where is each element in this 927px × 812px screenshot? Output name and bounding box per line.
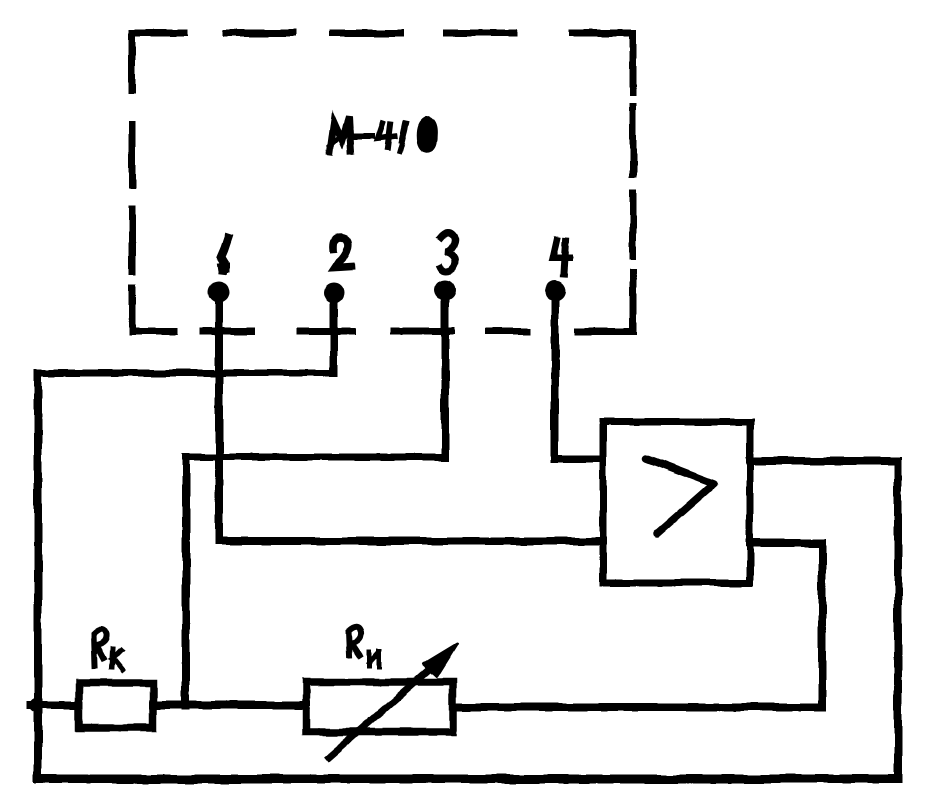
wire right bus vertical — [894, 461, 902, 779]
amplifier U1 gain symbol — [646, 458, 714, 534]
label RK — [94, 629, 123, 670]
dashed enclosure box left dash 3 — [129, 209, 136, 272]
resistor RK body — [79, 683, 153, 728]
dashed enclosure box bottom dash 3 — [300, 328, 352, 335]
wire pin1 vertical down to lower amp input line — [215, 292, 223, 541]
wire node vertical down to resistor line — [182, 457, 190, 706]
wire amplifier top output to right bus — [750, 457, 898, 465]
amplifier U1 box — [603, 422, 750, 583]
terminal pin 1 dot — [209, 282, 230, 303]
terminal pin 3 dot — [435, 280, 456, 301]
terminal label 3 — [440, 233, 455, 271]
wire left bus to resistor RK — [30, 701, 79, 709]
dashed enclosure box top dash 4 — [446, 30, 514, 37]
dashed enclosure box bottom dash 4 — [394, 328, 452, 335]
wire amplifier lower output — [750, 539, 822, 547]
terminal label 4 — [553, 240, 570, 274]
wire pin2 vertical down — [330, 293, 338, 373]
resistor RN body (variable) — [306, 682, 453, 732]
label M-416 — [330, 117, 435, 152]
variable resistor RN arrow diagonal — [329, 660, 440, 757]
wire left bus vertical — [34, 373, 42, 779]
dashed enclosure box right dash 2 — [630, 107, 637, 174]
wire bottom bus horizontal — [38, 775, 898, 784]
terminal label 1 — [221, 238, 228, 271]
dashed enclosure box bottom-left corner — [132, 288, 174, 331]
wire pin4 vertical down — [551, 291, 559, 459]
dashed enclosure box bottom dash 5 — [488, 328, 527, 335]
wire pin1 horizontal into amplifier lower input — [219, 537, 603, 545]
wire RK to RN — [153, 701, 306, 709]
dashed enclosure box right dash 3 — [630, 193, 637, 256]
wire lower output vertical down — [818, 543, 826, 707]
dashed enclosure box top dash 3 — [333, 30, 401, 37]
terminal pin 4 dot — [545, 281, 566, 302]
dashed enclosure box M-416 top-left corner — [132, 33, 184, 90]
terminal pin 2 dot — [324, 283, 345, 304]
node junction left bus — [29, 698, 43, 712]
terminal label 2 — [334, 237, 351, 268]
dashed enclosure box top-right corner — [572, 33, 633, 93]
dashed enclosure box bottom-right corner — [578, 272, 633, 331]
wire pin2 horizontal to left bus — [38, 370, 334, 377]
wire pin4 horizontal into amplifier input — [555, 456, 603, 463]
wire RN to lower output vertical — [454, 703, 822, 711]
wire pin3 vertical down — [441, 290, 449, 457]
label RN — [348, 627, 379, 667]
wire pin3 horizontal left to node vertical — [186, 454, 445, 461]
variable resistor RN arrow head — [424, 644, 457, 676]
dashed enclosure box top dash 2 — [226, 30, 294, 37]
dashed enclosure box bottom dash 2 — [203, 328, 252, 335]
dashed enclosure box left dash 2 — [129, 124, 136, 185]
